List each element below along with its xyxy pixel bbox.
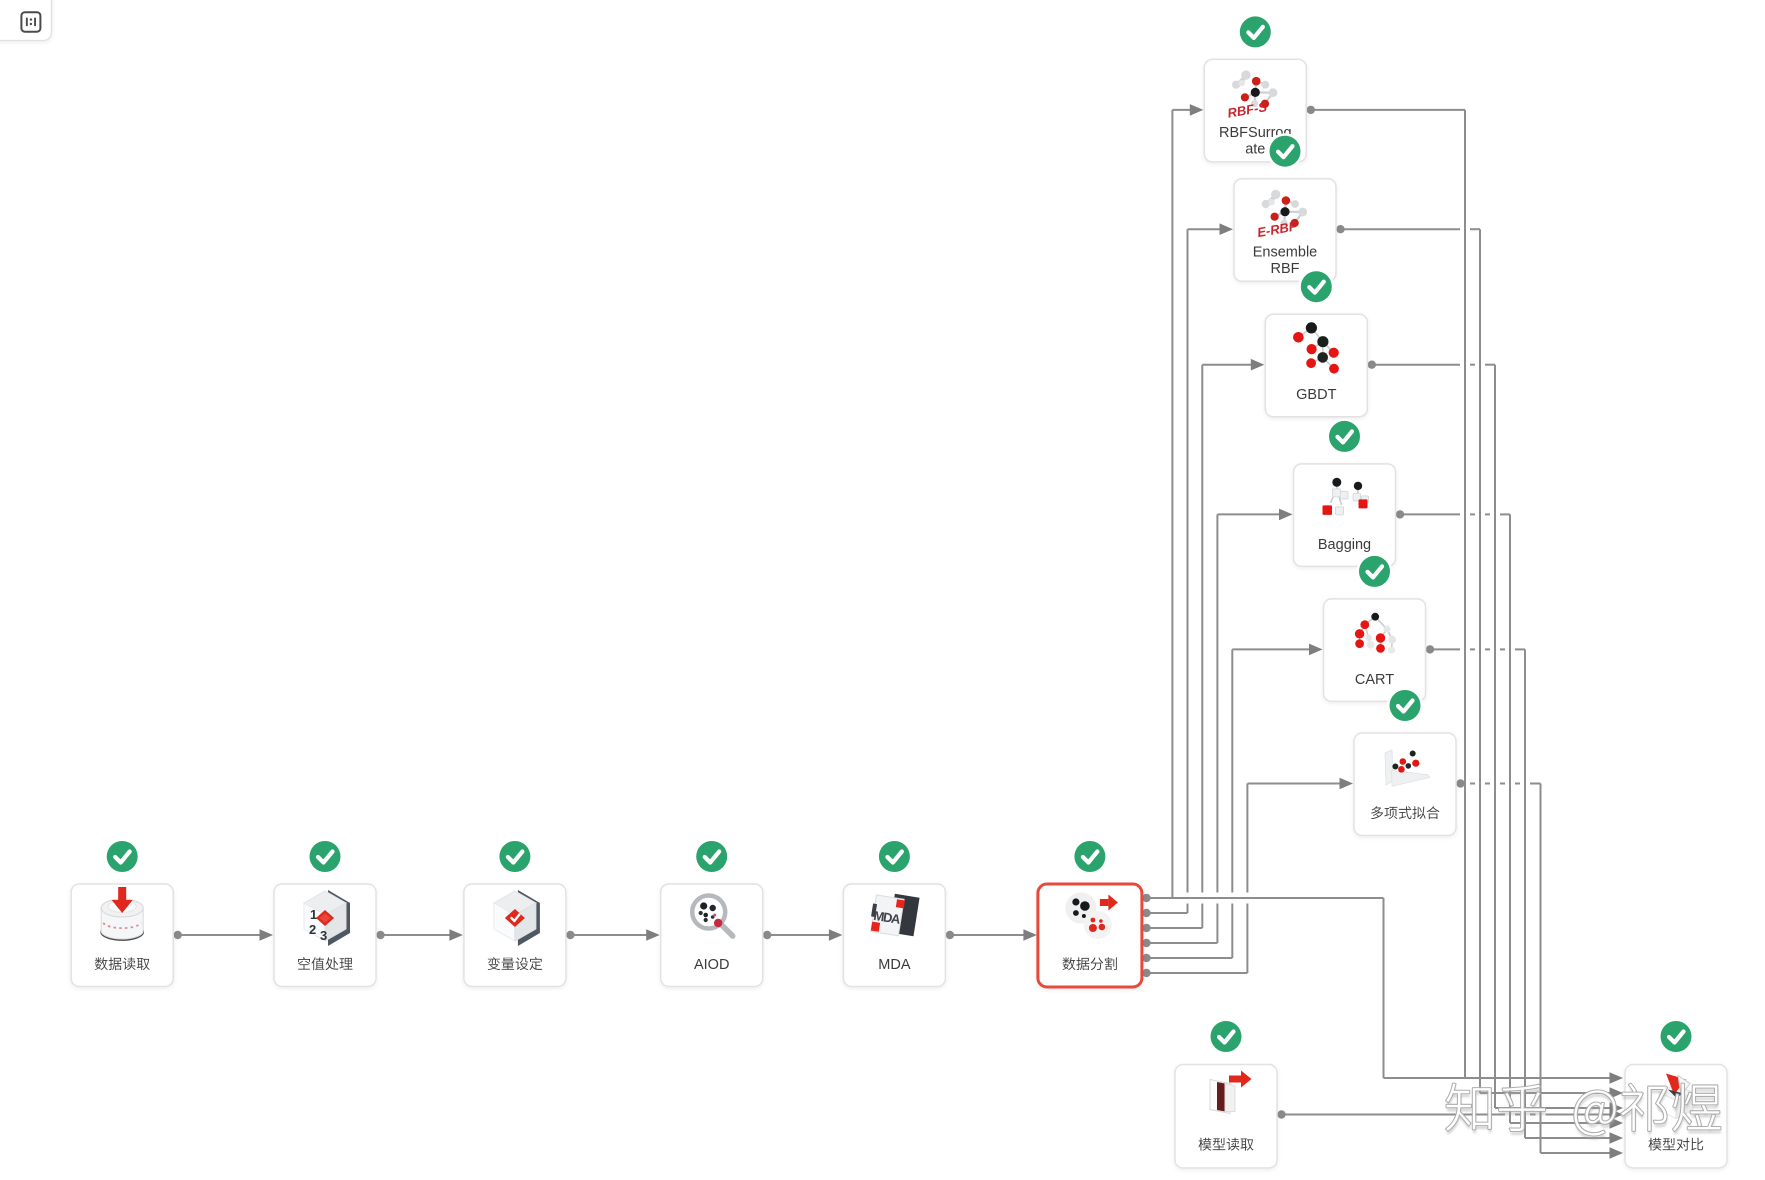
wire Bagging to 模型对比 — [1400, 514, 1623, 1128]
wire CART to 模型对比 — [1430, 649, 1623, 1143]
label 数据分割 — [1062, 957, 1116, 970]
wire EnsembleRBF to 模型对比 — [1341, 229, 1624, 1099]
status check RBFSurrogate — [1237, 14, 1273, 50]
output port 模型读取 — [1277, 1110, 1285, 1118]
wire 模型读取 to 模型对比 — [1282, 1109, 1624, 1121]
status check 数据读取 — [104, 839, 140, 875]
wire AIOD to MDA — [767, 929, 842, 941]
label GBDT — [1296, 387, 1336, 403]
status check 多项式拟合 — [1387, 688, 1423, 724]
label EnsembleRBF — [1253, 244, 1317, 277]
icon GBDT (boosted tree dots) — [1293, 322, 1339, 373]
node AIOD — [661, 884, 763, 987]
output port GBDT — [1368, 361, 1376, 369]
svg-text:RBF: RBF — [1271, 261, 1300, 277]
output port MDA — [946, 931, 954, 939]
wire 多项式拟合 to 模型对比 — [1470, 784, 1623, 1159]
node EnsembleRBF — [1234, 179, 1336, 282]
node 数据分割 (selected) — [1038, 884, 1142, 987]
status check 模型读取 — [1208, 1019, 1244, 1055]
status check MDA — [876, 839, 912, 875]
icon Ensemble RBF (molecule E-RBF) — [1256, 190, 1307, 240]
output port 数据分割 #5 — [1142, 954, 1150, 962]
icon 多项式拟合 (polynomial fit axis with dots) — [1385, 750, 1430, 786]
output port 数据分割 #3 — [1142, 924, 1150, 932]
output port EnsembleRBF — [1336, 225, 1344, 233]
svg-text:2: 2 — [309, 922, 316, 937]
status check Bagging — [1327, 418, 1363, 454]
node RBFSurrogate — [1204, 59, 1306, 161]
output port 数据分割 #2 — [1142, 909, 1150, 917]
wire 数据分割 to 模型对比 (test set) — [1147, 898, 1624, 1084]
wire 变量设定 to AIOD — [570, 929, 659, 941]
label 数据读取 — [95, 957, 150, 970]
svg-text:Bagging: Bagging — [1318, 537, 1371, 553]
icon 变量设定 (cube with red check diamond) — [494, 890, 540, 946]
watermark — [1446, 1084, 1721, 1140]
output port 多项式拟合 — [1456, 779, 1464, 787]
wire 数据读取 to 空值处理 — [178, 929, 273, 941]
node MDA — [843, 884, 945, 987]
status check GBDT — [1298, 269, 1334, 305]
output port 空值处理 — [376, 931, 384, 939]
wire 数据分割 to CART — [1147, 644, 1323, 958]
svg-text:Ensemble: Ensemble — [1253, 244, 1317, 260]
wire 数据分割 to Bagging — [1147, 509, 1293, 943]
status check EnsembleRBF — [1267, 133, 1303, 169]
label 多项式拟合 — [1371, 806, 1439, 819]
status check 空值处理 — [307, 839, 343, 875]
label 模型对比 — [1648, 1138, 1703, 1151]
wire 数据分割 to GBDT — [1147, 359, 1265, 928]
svg-text:3: 3 — [320, 928, 327, 943]
node 空值处理 — [274, 884, 376, 987]
status check CART — [1357, 553, 1393, 589]
label CART — [1355, 672, 1394, 688]
node 数据读取 — [71, 884, 173, 987]
status check 数据分割 — [1072, 839, 1108, 875]
icon AIOD (magnifier over dots) — [692, 896, 733, 937]
svg-text:CART: CART — [1355, 672, 1394, 688]
output port 数据分割 #1 — [1142, 894, 1150, 902]
icon 模型对比 (box with red flags) — [1659, 1074, 1693, 1119]
node 模型读取 — [1175, 1065, 1277, 1169]
label 模型读取 — [1198, 1138, 1253, 1151]
svg-text:GBDT: GBDT — [1296, 387, 1336, 403]
label 变量设定 — [488, 957, 543, 970]
output port 变量设定 — [566, 931, 574, 939]
wire MDA to 数据分割 — [950, 929, 1037, 941]
label RBFSurrogate — [1219, 125, 1292, 158]
svg-text:MDA: MDA — [878, 957, 911, 973]
icon 数据读取 (database cylinder with red import arrow) — [101, 887, 143, 940]
label 空值处理 — [298, 957, 352, 970]
wire 数据分割 to RBFSurrogate — [1172, 104, 1203, 898]
output port Bagging — [1396, 510, 1404, 518]
wire GBDT to 模型对比 — [1372, 365, 1623, 1114]
wire 数据分割 to 多项式拟合 — [1147, 778, 1354, 973]
wire RBFSurrogate to 模型对比 — [1311, 110, 1465, 1078]
svg-text:1: 1 — [310, 907, 317, 922]
output port 数据读取 — [174, 931, 182, 939]
output port 数据分割 #6 — [1142, 969, 1150, 977]
icon 空值处理 (cube with 1 2 3 and red diamond) — [304, 890, 350, 946]
node Bagging — [1294, 464, 1396, 567]
wire 数据分割 to EnsembleRBF — [1147, 223, 1234, 913]
status check AIOD — [694, 839, 730, 875]
node CART — [1324, 599, 1426, 702]
output port AIOD — [763, 931, 771, 939]
output port CART — [1426, 645, 1434, 653]
icon RBFSurrogate (molecule RBF-S) — [1226, 70, 1277, 120]
label Bagging — [1318, 537, 1371, 553]
icon CART (decision tree) — [1355, 613, 1396, 654]
wire 空值处理 to 变量设定 — [381, 929, 463, 941]
node 模型对比 — [1625, 1065, 1727, 1169]
output port 数据分割 #4 — [1142, 939, 1150, 947]
icon 数据分割 (two dishes with red arrow) — [1065, 893, 1118, 940]
node GBDT — [1265, 314, 1367, 417]
node 变量设定 — [464, 884, 566, 987]
icon 模型读取 (model file with red arrow) — [1210, 1071, 1252, 1114]
status check 变量设定 — [497, 839, 533, 875]
output port RBFSurrogate — [1307, 106, 1315, 114]
node 多项式拟合 — [1354, 733, 1456, 836]
status check 模型对比 — [1658, 1019, 1694, 1055]
toolbar fit button — [0, 0, 52, 41]
svg-text:AIOD: AIOD — [694, 957, 729, 973]
label MDA — [878, 957, 911, 973]
svg-text:ate: ate — [1245, 142, 1265, 158]
label AIOD — [694, 957, 729, 973]
icon Bagging (two tree ensembles) — [1323, 478, 1369, 515]
